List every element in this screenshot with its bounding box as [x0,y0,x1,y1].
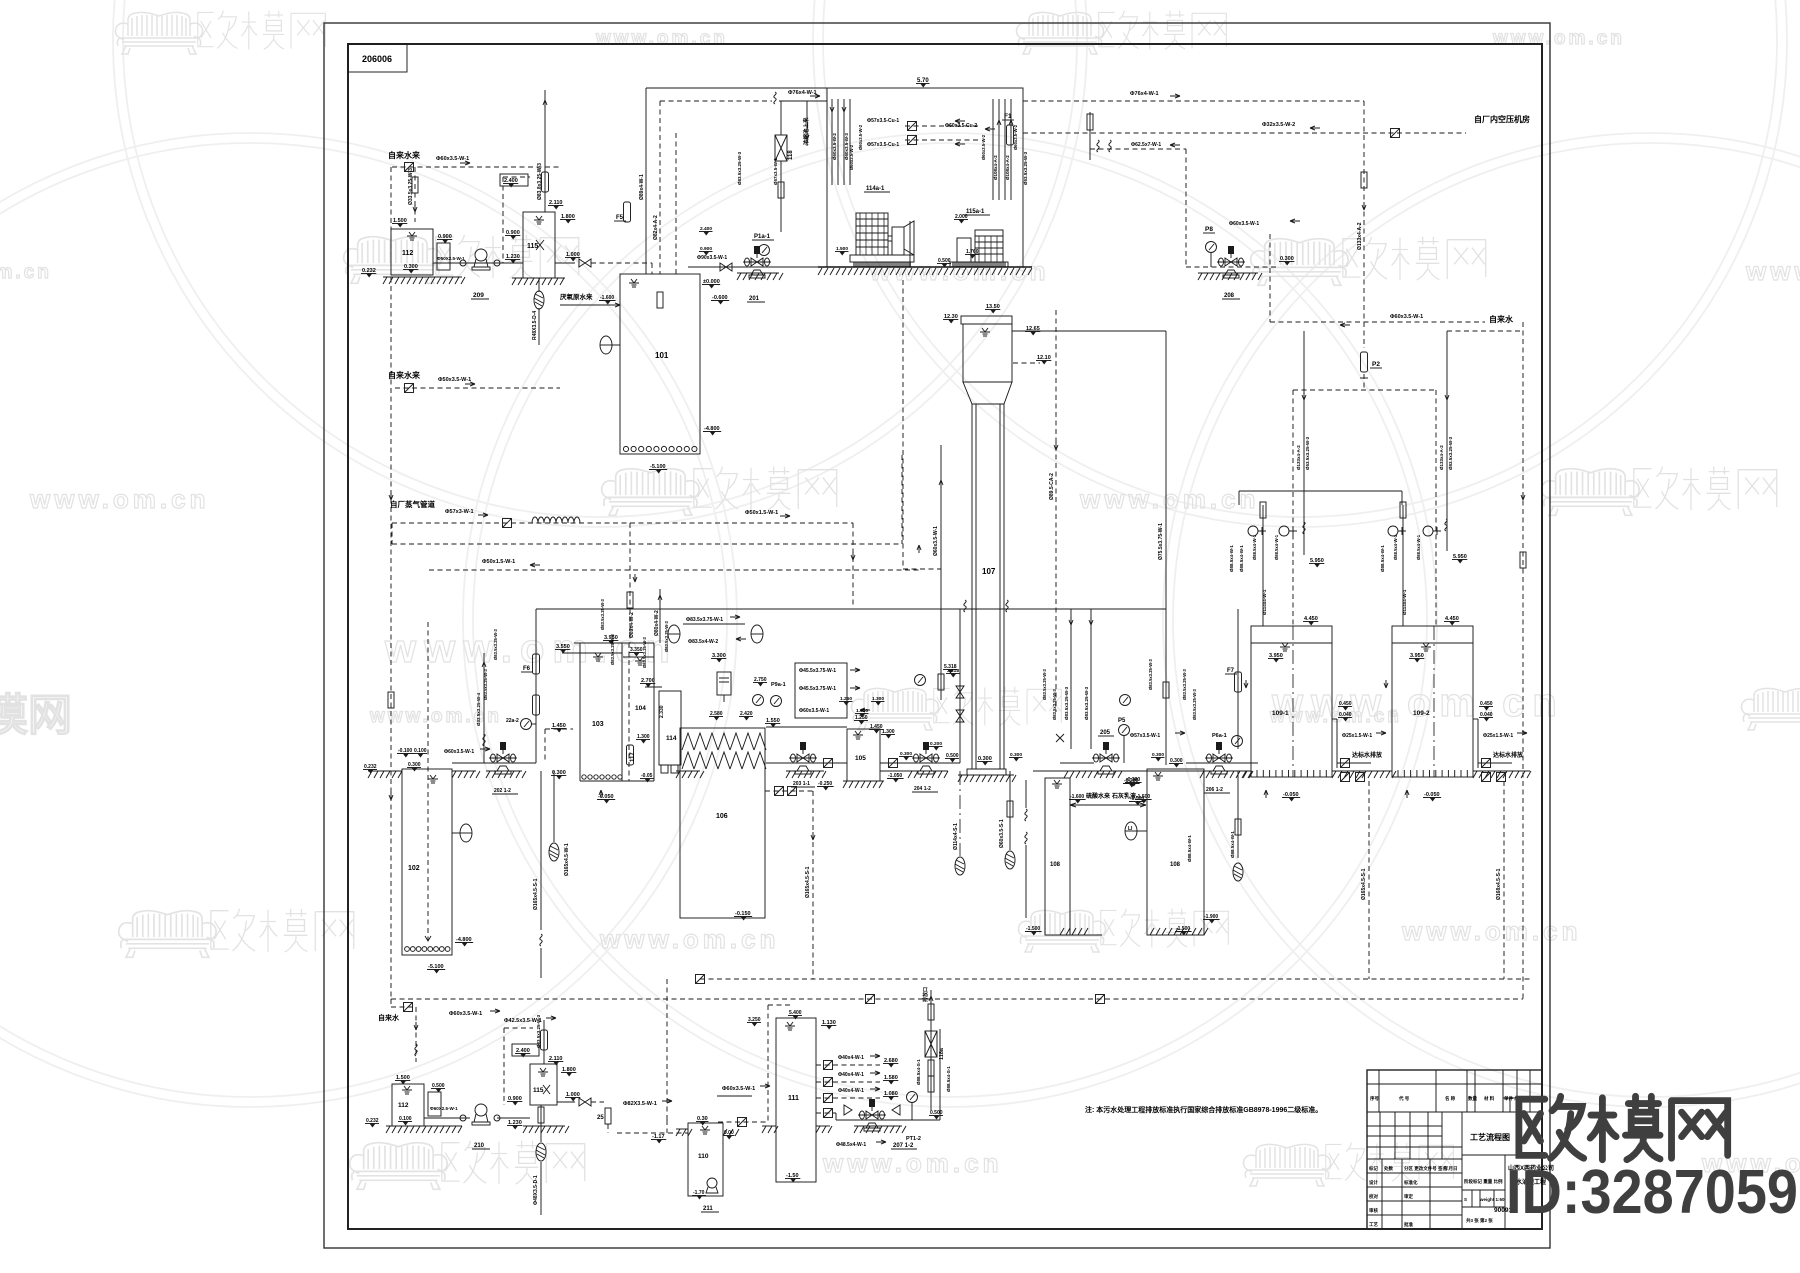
svg-text:阶段标记 重量 比例: 阶段标记 重量 比例 [1464,1178,1503,1185]
pump 202 line [452,762,536,764]
extra flow elements on long lines [657,292,663,308]
pump 206 [1186,762,1258,764]
svg-text:Ø60x3.5-W-2: Ø60x3.5-W-2 [858,124,863,150]
drop pipe with eductor below 115 [538,278,540,292]
svg-text:Ø88.5x4-W-1: Ø88.5x4-W-1 [1393,534,1398,560]
pump 208 valve [1217,246,1245,278]
svg-text:Ø83.5x3.25-W-3: Ø83.5x3.25-W-3 [1064,686,1069,720]
pump house outline [827,88,1023,267]
tower 107 inner wall lines [975,404,977,769]
svg-text:Ø80x4-W-2: Ø80x4-W-2 [654,610,660,636]
svg-text:工艺: 工艺 [1369,1221,1378,1228]
svg-text:111: 111 [788,1095,799,1102]
tank 103/104 top line [574,642,654,644]
svg-text:210: 210 [474,1143,485,1149]
pump 204 [880,762,960,764]
svg-text:204 1-2: 204 1-2 [914,786,931,792]
ground under tank 112 [383,276,462,278]
svg-text:Ø114x4-W-1: Ø114x4-W-1 [1262,589,1267,615]
svg-text:118a: 118a [939,1047,945,1060]
svg-text:标准化: 标准化 [1403,1179,1418,1186]
svg-text:P9a-1: P9a-1 [771,682,786,688]
svg-text:22a-2: 22a-2 [506,718,519,724]
instrument F6 on drop x536 [535,609,537,763]
pump 210 [424,1117,470,1119]
tank 115 bottom [530,1064,557,1105]
svg-text:112: 112 [402,250,413,257]
svg-text:2.330: 2.330 [659,705,665,718]
svg-text:Ø83.5x3.25-W-3: Ø83.5x3.25-W-3 [600,598,605,630]
tank 103 bottom nozzles [582,775,622,779]
tank 101 [620,274,700,454]
instrument LI on 101 [600,336,612,354]
svg-text:Ø53.5x3.25-W-3: Ø53.5x3.25-W-3 [1305,436,1310,470]
svg-text:Ø33.5x3.25-W-3: Ø33.5x3.25-W-3 [408,168,414,205]
svg-text:Ø33.5x3.25-W-3: Ø33.5x3.25-W-3 [536,1014,541,1048]
instrument P2 [1361,352,1368,372]
svg-text:112: 112 [398,1102,409,1109]
svg-text:Φ60X2.5-W-1: Φ60X2.5-W-1 [430,1106,458,1111]
tower 107 top tank [961,316,1012,324]
wire: steam dashed header [392,522,853,524]
svg-text:25: 25 [597,1115,604,1121]
svg-text:109-1: 109-1 [1272,710,1289,717]
svg-text:206006: 206006 [362,54,392,64]
svg-text:注: 本污水处理工程排放标准执行国家综合排放标准GB8978: 注: 本污水处理工程排放标准执行国家综合排放标准GB8978-1996二级标准。 [1085,1105,1322,1114]
svg-text:Ø83.5x3.25-W-3: Ø83.5x3.25-W-3 [1084,686,1089,720]
svg-text:Φ60x3.5-W-1: Φ60x3.5-W-1 [1390,314,1423,320]
svg-text:www.om.cn: www.om.cn [1745,256,1800,286]
wire: dashed header from pump house to P2 [1023,100,1364,102]
svg-text:R48X3.5-D-4: R48X3.5-D-4 [532,311,538,340]
svg-text:序号: 序号 [1369,1095,1379,1102]
wire: down from 208 [1269,234,1271,322]
svg-text:数量: 数量 [1468,1095,1477,1102]
svg-text:自来水来: 自来水来 [388,150,421,160]
svg-text:Φ57x3.5-Cu-1: Φ57x3.5-Cu-1 [867,118,899,124]
wire: branch to pump 208 [1090,148,1186,150]
ground line across pump row [1033,770,1251,772]
dosing pumps on manifold left [1262,505,1264,626]
svg-text:Ø60x3.5-W-2: Ø60x3.5-W-2 [849,144,854,170]
svg-text:标记: 标记 [1368,1165,1378,1172]
ground hatches middle [676,770,700,772]
wire into pump house [779,100,827,102]
svg-text:Φ60x3.5-W-1: Φ60x3.5-W-1 [722,1086,755,1092]
svg-text:www.om.cn: www.om.cn [29,484,210,514]
wire: right dashed spine [1522,322,1524,999]
svg-text:Φ90x3.5-W-1: Φ90x3.5-W-1 [697,255,727,261]
svg-text:114a-1: 114a-1 [866,186,885,192]
wire: dashed feed into 101 [675,133,677,274]
svg-text:Φ82X3.5-W-1: Φ82X3.5-W-1 [623,1101,657,1107]
outlet 109-1 [1332,718,1337,720]
vessel 117 [627,745,634,765]
tank 112 bottom [392,1084,424,1126]
svg-text:www.om.cn: www.om.cn [869,256,1050,286]
svg-text:达标水排放: 达标水排放 [1493,751,1524,759]
drawing outer frame [324,23,1550,1248]
wire: left dashed spine [390,167,392,999]
riser into 115b [543,1020,545,1064]
wire: dashed drop to P2 [1363,101,1365,348]
svg-text:Ø165x4.5-S-1: Ø165x4.5-S-1 [533,878,539,910]
svg-text:Φ76x4-W-1: Φ76x4-W-1 [1130,91,1159,97]
svg-text:Ø83.5x3.25-W-3: Ø83.5x3.25-W-3 [642,636,647,668]
svg-text:Ø83.5x3.25-W-3: Ø83.5x3.25-W-3 [1148,658,1153,690]
valve on drop [412,177,418,193]
svg-text:LI: LI [1128,826,1133,832]
svg-text:www.om.cn: www.om.cn [595,28,728,49]
svg-text:106: 106 [716,813,728,820]
pump 205 [1060,762,1094,764]
svg-text:Ø88.5x4-W-1: Ø88.5x4-W-1 [1239,545,1244,572]
svg-text:201: 201 [749,296,760,302]
small instrument circles sprinkled [753,695,764,706]
svg-text:厌氧原水来: 厌氧原水来 [560,292,593,301]
tank 109-2 [1392,626,1473,777]
svg-text:Ø83.5x3.25-W-3: Ø83.5x3.25-W-3 [610,633,615,665]
strainer drop x554 [553,771,555,842]
wire: drop to tank 112 [414,167,416,222]
svg-text:处数: 处数 [1383,1165,1393,1172]
motor 114 discharge pipe [909,221,911,267]
outlet valve of 115b [557,1101,575,1103]
svg-text:104: 104 [635,705,646,712]
wire: dashed manifold to clearwells [1293,389,1436,391]
svg-text:Ø165x4.5-W-1: Ø165x4.5-W-1 [564,843,570,876]
svg-text:校对: 校对 [1369,1193,1378,1200]
svg-text:102: 102 [408,865,420,872]
wire: riser x660 [659,589,661,643]
svg-text:分区 更改文件号 签名: 分区 更改文件号 签名 [1404,1165,1447,1172]
wire: bottom dashed header A [700,978,1530,980]
svg-text:P6a-1: P6a-1 [1212,733,1227,739]
svg-text:Ø82x4-A-2: Ø82x4-A-2 [653,215,659,240]
tank 106 packing [682,733,766,769]
svg-text:202 1-2: 202 1-2 [494,788,511,794]
svg-text:105: 105 [855,755,866,762]
svg-text:排放口: 排放口 [922,987,929,1002]
svg-text:Φ45.5x3.75-W-1: Φ45.5x3.75-W-1 [799,668,836,674]
svg-text:Ø83.5x3.25-W-3: Ø83.5x3.25-W-3 [483,668,488,700]
svg-text:Ø60x3.5-W-2: Ø60x3.5-W-2 [981,134,986,160]
outlet 4 of 111 to pump 207 [824,1109,833,1118]
tower 107 base [967,769,1006,775]
svg-text:Φ60x3.5-W-1: Φ60x3.5-W-1 [799,708,829,714]
svg-text:110: 110 [698,1153,709,1160]
svg-text:114: 114 [666,735,677,742]
drop with eductor below 115b [540,1105,542,1142]
svg-text:P1a-1: P1a-1 [754,234,771,240]
svg-text:Φ60x3.5-W-1: Φ60x3.5-W-1 [436,156,469,162]
riser x484 [483,653,485,763]
svg-text:Ø53.5x3.25-W-3: Ø53.5x3.25-W-3 [1023,151,1028,185]
svg-text:www.om.cn: www.om.cn [599,924,780,954]
tank 102 bottom nozzles [405,947,450,952]
instrument LIA [1125,822,1137,840]
wire: dashed drop x660 [659,101,661,274]
tank 106 [680,728,765,918]
svg-text:共3 张 第2 张: 共3 张 第2 张 [1466,1217,1493,1224]
svg-text:Φ62.5x7-W-1: Φ62.5x7-W-1 [1131,142,1161,148]
svg-text:ID:3287059: ID:3287059 [1506,1158,1798,1227]
svg-text:Ø133x4-A-2: Ø133x4-A-2 [1439,445,1444,470]
svg-text:Ø83.5x3.25-W-3: Ø83.5x3.25-W-3 [1448,436,1453,470]
pump house right riser group [993,99,1011,200]
svg-text:年月日: 年月日 [1444,1165,1458,1172]
svg-text:自来水来: 自来水来 [388,370,421,380]
svg-text:代 号: 代 号 [1398,1095,1410,1102]
tank 115 [523,212,555,278]
svg-text:工艺流程图: 工艺流程图 [1470,1132,1510,1142]
svg-text:Ø83.5x3.25-W-3: Ø83.5x3.25-W-3 [1052,688,1057,720]
riser x960 with valves [959,609,961,763]
svg-text:Ø168x4.5-S-1: Ø168x4.5-S-1 [1496,868,1502,900]
svg-text:自来水: 自来水 [1489,314,1514,324]
svg-text:Φ50x1.5-W-1: Φ50x1.5-W-1 [745,510,778,516]
wire: steam drop x853 [852,523,854,608]
svg-text:Φ48.5x4-W-1: Φ48.5x4-W-1 [836,1142,866,1148]
svg-text:weight 1:60: weight 1:60 [1479,1197,1505,1202]
svg-text:Ø108x4-A-2: Ø108x4-A-2 [1005,155,1010,180]
wire: riser x941 [940,445,942,609]
wire: compressed air dashed line [1023,132,1466,134]
svg-text:www.om.cn: www.om.cn [1079,484,1260,514]
svg-text:Φ76x4-W-1: Φ76x4-W-1 [788,90,817,96]
centerline x1026 [1025,780,1027,808]
tank 110 [688,1123,723,1196]
svg-text:PT1-2: PT1-2 [906,1136,921,1142]
svg-text:Ø114x4-W-1: Ø114x4-W-1 [1402,589,1407,615]
wire: right side feeds [1447,330,1523,332]
svg-text:Φ48X3.5-D-1: Φ48X3.5-D-1 [533,1175,539,1205]
svg-text:Φ60x3.5-W-1: Φ60x3.5-W-1 [444,749,474,755]
svg-text:Ø83.8x3.25-W-3: Ø83.8x3.25-W-3 [537,163,543,200]
svg-text:115: 115 [533,1087,544,1094]
tank 102 [402,769,452,955]
main water header y609 [536,608,1166,610]
svg-text:F5: F5 [616,215,624,221]
svg-text:Φ57x3-W-1: Φ57x3-W-1 [445,509,474,515]
small vessel 116 [717,672,731,695]
svg-text:www.om.cn: www.om.cn [1401,916,1582,946]
svg-text:118: 118 [788,150,794,160]
ground at tank 102 [368,770,402,772]
svg-text:Ø83.5x3.25-W-3: Ø83.5x3.25-W-3 [664,620,669,652]
svg-text:Ø88.5x4-S-1: Ø88.5x4-S-1 [916,1059,921,1085]
svg-text:Ø88.5x4-W-1: Ø88.5x4-W-1 [1274,534,1279,560]
svg-text:Φ57x3.5-W-1: Φ57x3.5-W-1 [1130,733,1160,739]
svg-text:205: 205 [1100,730,1111,736]
tank 112 [391,229,433,275]
svg-text:Ø83.5x3.25-W-3: Ø83.5x3.25-W-3 [1192,688,1197,720]
svg-text:107: 107 [982,567,996,576]
svg-text:P2: P2 [1372,361,1380,368]
svg-text:Ø60x3.5-W-2: Ø60x3.5-W-2 [1013,124,1018,150]
svg-text:Φ40x4-W-1: Φ40x4-W-1 [838,1088,864,1094]
svg-text:F7: F7 [1227,668,1235,674]
pump 201 line [688,266,827,268]
wire: stub [1089,112,1091,160]
tank 108-1 [1045,778,1070,935]
tank 109-1 [1251,626,1332,777]
wire: bottom dashed header B [391,998,1523,1000]
svg-text:Ø75.5x3.75-W-1: Ø75.5x3.75-W-1 [1158,523,1164,560]
wire: tap water dashed feed [392,166,560,168]
wire: drop x1010 [1009,771,1011,850]
wire: dashed outfall drops [1368,781,1370,979]
wire: x903 dashed [902,280,904,569]
extra arrows on verticals [851,552,855,560]
instrument F5 [624,202,631,222]
tower 107 taper [963,382,1012,404]
svg-text:Ø88.5x4-W-1: Ø88.5x4-W-1 [1380,545,1385,572]
svg-text:Φ50x3.5-W-1: Φ50x3.5-W-1 [438,377,471,383]
svg-text:Φ60x3.5-W-1: Φ60x3.5-W-1 [1229,221,1259,227]
pump 203 [766,762,847,764]
svg-text:Φ40x4-W-1: Φ40x4-W-1 [838,1072,864,1078]
svg-text:材 料: 材 料 [1484,1095,1495,1102]
svg-text:Ø88.5x4-W-1: Ø88.5x4-W-1 [1230,831,1235,858]
svg-text:www.om.cn: www.om.cn [0,262,52,283]
ground under clearwells [1243,770,1251,772]
wire: vent stack x931 [930,990,932,1110]
svg-text:硫酸水来: 硫酸水来 [1086,792,1111,800]
svg-text:101: 101 [655,351,669,360]
svg-text:Ø88.5x4-W-1: Ø88.5x4-W-1 [1229,545,1234,572]
wire: suction drops under 203/204 [959,771,961,856]
pump 202 valve [489,742,517,774]
column 25 [605,1108,611,1124]
wire: 112 to pump 209 [433,262,523,264]
svg-text:Ø88.5x4-W-1: Ø88.5x4-W-1 [1416,534,1421,560]
dashed tap on 103 [545,728,573,730]
svg-text:Ø33.5x3.25-W-4: Ø33.5x3.25-W-4 [476,692,481,726]
pump 208 [1186,266,1278,268]
svg-text:Ø165x4.5-S-1: Ø165x4.5-S-1 [805,866,811,898]
svg-text:www.om.cn: www.om.cn [1271,681,1565,725]
svg-text:Φ25x1.5-W-1: Φ25x1.5-W-1 [1342,733,1372,739]
clearwell feed manifold [1239,490,1402,492]
instrument LI at 102 [460,824,472,842]
instruments TIA [668,625,680,643]
tank 102 dip tube [427,622,429,940]
svg-text:Ø88.5x4-S-1: Ø88.5x4-S-1 [946,1066,951,1092]
svg-text:P8: P8 [1205,226,1213,233]
svg-text:设计: 设计 [1369,1179,1378,1186]
expansion loop [532,517,580,523]
svg-text:Ø133x4-A-2: Ø133x4-A-2 [1296,445,1301,470]
svg-text:欧模网: 欧模网 [0,691,72,740]
svg-text:石灰乳液: 石灰乳液 [1111,792,1137,800]
wire: 115 outlet [555,262,575,264]
svg-text:Φ57x3.5-Cu-1: Φ57x3.5-Cu-1 [867,142,899,148]
svg-text:P5: P5 [1118,718,1126,724]
wire: dashed chem down x813 [765,790,813,792]
svg-text:Ø114x4-S-1: Ø114x4-S-1 [953,823,959,850]
svg-text:F1: F1 [1004,113,1012,120]
discharge stack 118a [939,1029,941,1120]
outlet 109-2 [1473,718,1478,720]
svg-text:Φ60x3.5-W-1: Φ60x3.5-W-1 [449,1011,482,1017]
dosing pumps on manifold right [1402,505,1404,626]
dosing box [428,1092,441,1116]
svg-text:www.om.cn: www.om.cn [369,706,502,727]
svg-text:自厂蒸气管道: 自厂蒸气管道 [390,499,435,509]
svg-text:审核: 审核 [1369,1207,1378,1214]
dashed enclosure left of 111 [767,1005,769,1121]
pump house ground/foundation [818,266,1032,268]
svg-text:Ø88.5x4-W-1: Ø88.5x4-W-1 [1252,534,1257,560]
wire: dashed chem drop x1056 [1055,310,1057,712]
flow element 118 [775,135,787,161]
tower 107 column [972,404,1004,769]
tank 101 bottom nozzles [623,446,697,451]
wire: x1166 down [1163,682,1169,698]
svg-text:批准: 批准 [1404,1221,1413,1228]
svg-text:达标水排放: 达标水排放 [1352,751,1383,759]
svg-text:Φ50x1.5-W-1: Φ50x1.5-W-1 [482,559,515,565]
svg-text:Φ25x1.5-W-1: Φ25x1.5-W-1 [1483,733,1513,739]
pump 211 inside 110 [707,1178,717,1188]
svg-text:Φ60x3.5-Cu-2: Φ60x3.5-Cu-2 [945,123,977,129]
wire: suction risers x1071 x1091 [1070,609,1072,749]
svg-text:Ø83.5x3.25-W-3: Ø83.5x3.25-W-3 [737,151,742,185]
extra valve boxes on dashed headers [696,975,705,984]
svg-text:浓缩池上来: 浓缩池上来 [802,117,810,145]
tank 103 [579,643,581,781]
wire: dashed into 110 [718,1121,768,1123]
drawing inner frame [348,44,1542,1229]
svg-text:Φ83.5x3.75-W-1: Φ83.5x3.75-W-1 [686,617,723,623]
svg-text:Ø89x4-W-2: Ø89x4-W-2 [629,612,635,638]
svg-text:Ø60x3.5-W-1: Ø60x3.5-W-1 [933,526,939,556]
svg-text:115a-1: 115a-1 [966,209,985,215]
svg-text:Ø133x4-A-2: Ø133x4-A-2 [1357,222,1363,250]
svg-text:www.om.cn: www.om.cn [1492,28,1625,49]
svg-text:S: S [1464,1197,1467,1202]
pump house interior pipes left [832,99,850,185]
svg-text:Ø83.5x3.25-W-3: Ø83.5x3.25-W-3 [1042,668,1047,700]
air branch arrows [905,125,980,127]
svg-text:Φ45.5x3.75-W-1: Φ45.5x3.75-W-1 [799,686,836,692]
tank 111 [776,1018,816,1182]
tank 104 [628,643,630,781]
svg-text:211: 211 [703,1206,713,1212]
svg-text:Ø57x3.5-W-1: Ø57x3.5-W-1 [773,158,778,185]
svg-text:www.om.cn: www.om.cn [822,1148,1003,1178]
vessel 114 [659,691,681,765]
wire: feed into 101 top [645,88,647,274]
wire: pump house top feed [646,87,827,89]
wire: chem drop x630 [629,523,631,643]
outlet 3 of 111 [816,1097,880,1099]
svg-text:自厂内空压机房: 自厂内空压机房 [1474,114,1530,124]
svg-text:Ø60x3.5-W-2: Ø60x3.5-W-2 [832,133,837,160]
wire: tower overflow right [1012,330,1166,332]
wire: header 3 [429,569,919,571]
svg-text:Φ83.5x4-W-2: Φ83.5x4-W-2 [688,639,718,645]
svg-text:审定: 审定 [1404,1193,1413,1200]
svg-text:Ø89.5-CA-2: Ø89.5-CA-2 [1049,473,1055,500]
tank 105 [847,729,880,781]
title block [1367,1070,1542,1229]
svg-text:Ø83.5x3.25-W-3: Ø83.5x3.25-W-3 [1182,668,1187,700]
outlet 2 of 111 [816,1081,880,1083]
svg-text:Ø83.5x3.25-W-3: Ø83.5x3.25-W-3 [493,628,498,660]
svg-text:207 1-2: 207 1-2 [893,1143,914,1149]
